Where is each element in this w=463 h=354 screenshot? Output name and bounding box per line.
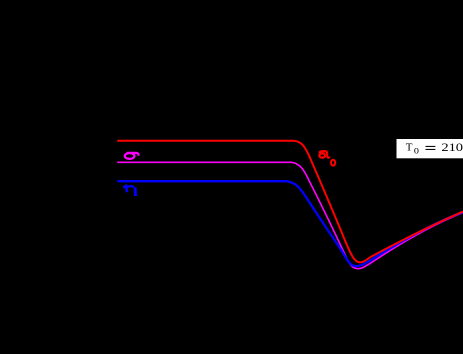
curve a0 (red)	[117, 141, 463, 263]
label eta (blue glyph)	[124, 186, 135, 196]
svg-text:2: 2	[441, 140, 448, 153]
svg-text:0: 0	[456, 140, 463, 153]
curve sigma (magenta)	[117, 162, 463, 268]
legend value 210	[441, 140, 463, 153]
label sigma (magenta glyph)	[125, 153, 139, 159]
legend equals sign	[426, 146, 436, 147]
label a0 (red glyph)	[319, 151, 335, 165]
curve eta (blue)	[117, 181, 463, 266]
svg-text:1: 1	[449, 140, 456, 153]
svg-text:0: 0	[414, 147, 419, 156]
svg-text:T: T	[406, 141, 413, 153]
legend box frame	[397, 139, 463, 158]
